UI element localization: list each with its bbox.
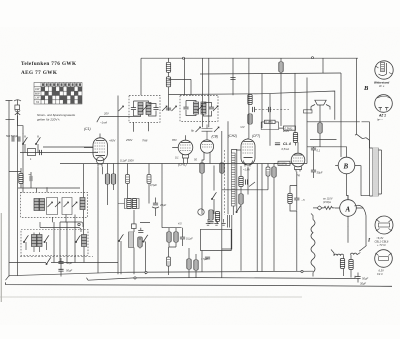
scan left edge	[0, 213, 2, 302]
pad cap	[40, 150, 42, 155]
cap C-50b electrolytic	[58, 269, 63, 271]
input pad box	[28, 149, 36, 156]
lamp socket circle top	[375, 216, 393, 234]
node on HT bus	[183, 57, 185, 59]
wire x141 down to IF1	[140, 58, 142, 95]
capacitor C-168	[166, 108, 171, 110]
rectifier tube circle A	[340, 200, 357, 217]
tube V4 base	[244, 161, 253, 167]
tuning gang cap plates	[202, 125, 213, 141]
resistor R-290	[288, 194, 292, 204]
lamp wires	[344, 253, 361, 278]
switch S-osc	[211, 192, 216, 199]
resistor pair R-107	[105, 174, 109, 184]
wire y147 left	[43, 146, 93, 148]
small circle node loop	[78, 223, 80, 225]
tube V1 base	[97, 157, 104, 167]
IF transformer 2 dashed can	[180, 95, 218, 121]
oscillator coil tall	[232, 153, 236, 206]
wire x356 down to switch	[356, 58, 358, 134]
IF transformer 1 dashed can	[129, 95, 160, 122]
wire C-182	[182, 228, 184, 246]
switch S2b	[44, 235, 49, 242]
dashed AVC y109.5	[255, 109, 289, 111]
coil L2	[80, 198, 85, 210]
wire x233 down	[232, 58, 234, 95]
dial lamp coil 1	[334, 254, 344, 256]
leads R-149	[148, 164, 150, 204]
RF coil pack 2 dashed box	[21, 230, 88, 256]
resistor R-196	[194, 260, 198, 270]
wires cathode	[268, 164, 274, 272]
coil L3	[32, 235, 37, 247]
wire C-50b down	[60, 271, 62, 276]
wire x118 long down	[117, 96, 119, 275]
resistor box 0.3M top	[284, 126, 296, 130]
switch S-mains	[359, 246, 366, 252]
diamond node	[317, 206, 322, 210]
cap C-50a electrolytic	[58, 258, 63, 270]
node on HT bus right	[312, 57, 314, 59]
wire R-295	[295, 133, 297, 146]
IF1 tuning cap right	[153, 108, 158, 110]
wire between stack	[168, 72, 170, 77]
osc coil side wire	[222, 150, 237, 250]
wire x191 down	[190, 79, 192, 95]
resistor R-250b	[248, 114, 252, 124]
output tube circle B	[338, 157, 355, 174]
wire earth bar	[6, 118, 15, 120]
IF1 internal wiring	[134, 101, 157, 116]
transformer side wires	[362, 122, 382, 196]
wire y152 left	[20, 152, 98, 154]
resistor R-stack-2	[166, 77, 170, 87]
coupling cap C-233	[230, 78, 235, 80]
IF2 tuning cap left	[183, 107, 188, 109]
cap C-in1	[12, 136, 14, 141]
resistor R-lamp1	[340, 259, 344, 269]
resistor R-127 light	[126, 175, 130, 184]
antenna terminal A	[6, 101, 13, 119]
wire osc mid	[213, 166, 215, 215]
wire verticals pack1	[37, 164, 85, 263]
wire long y94	[169, 91, 335, 120]
node bus1 right	[301, 270, 303, 272]
heater chain resistors mid-bottom	[167, 257, 171, 266]
trimmer T1	[48, 202, 53, 207]
resistor R-295 vertical	[293, 133, 297, 143]
heater wires	[169, 247, 197, 278]
resistor R-V4a	[239, 177, 243, 187]
cone side contacts	[311, 105, 330, 111]
wire y121.5 right	[307, 121, 360, 123]
volume block resistors	[118, 199, 139, 209]
wire y190	[222, 189, 268, 191]
tone resistor R-140	[138, 237, 142, 247]
wire left vertical x9	[8, 119, 10, 277]
wire x257 down	[256, 164, 258, 272]
resistor R-stack-1	[166, 62, 170, 72]
IF1 coil secondary	[146, 103, 151, 115]
cap C-207	[205, 257, 210, 259]
coil L1b	[40, 199, 45, 211]
switch S2a	[23, 235, 28, 242]
IF1 arrow	[142, 106, 147, 111]
coil L3b	[37, 235, 42, 247]
wire x208.8 down	[208, 58, 210, 127]
cap C-155	[152, 198, 159, 217]
resistor R-202 low	[200, 163, 204, 173]
IF2 tuning cap right	[209, 107, 214, 109]
IF1 coil primary	[138, 103, 143, 115]
tube V3 legs	[204, 153, 210, 161]
bottom bus 3	[87, 276, 356, 281]
resistor R-20 left	[19, 174, 23, 184]
cap C-276	[275, 143, 280, 145]
voltage table filled cells	[41, 83, 82, 103]
wire diamond left	[313, 207, 317, 209]
cap C-31 plus	[29, 175, 32, 182]
IF1 tuning cap left	[131, 108, 136, 110]
tube V2 base	[183, 155, 189, 164]
tube V4 leads	[236, 138, 248, 195]
wire stack bottom	[168, 87, 170, 111]
wire IF1 drops	[134, 122, 149, 132]
cone stem wires	[319, 105, 321, 147]
switch S1a	[22, 137, 27, 144]
component small box right of cone	[304, 110, 313, 113]
wire x307 down	[306, 78, 308, 164]
tube V5 base	[295, 167, 302, 172]
antenna diamond arrester	[15, 110, 20, 116]
wire x248.9 down	[248, 58, 250, 138]
dial lamp coil 2	[351, 253, 357, 255]
wire rect loop	[201, 229, 232, 272]
wire x221.8 down	[221, 131, 223, 278]
resistor R-169	[167, 232, 171, 242]
cap C-in2	[18, 136, 20, 141]
node bus3	[134, 277, 136, 279]
wire long y73	[200, 73, 341, 74]
wire x295 down	[294, 73, 296, 133]
wire left vertical x17	[17, 115, 19, 276]
cap C-313b	[311, 164, 316, 179]
IF2 coil secondary	[201, 102, 206, 114]
tube V4 output pentode envelope	[241, 139, 255, 165]
tone cap small box	[132, 224, 137, 229]
cap C-356	[355, 273, 360, 283]
wire loop around box	[261, 122, 278, 130]
wire x341 down	[340, 73, 342, 157]
loop wire rounded	[40, 222, 83, 232]
tube V2 IF amp envelope	[178, 140, 193, 155]
IF2 arrow	[198, 106, 203, 111]
dashed shield line bottom	[20, 256, 93, 258]
resistor box 0.1M mid	[265, 120, 276, 124]
resistor R-222 low	[220, 163, 224, 173]
faint page edge	[0, 296, 302, 298]
cap C-245	[246, 179, 248, 184]
wire antenna down	[18, 115, 24, 133]
cap C-297	[294, 186, 299, 211]
wire x228 down	[227, 121, 229, 214]
lamp bracket 1	[331, 250, 334, 256]
coil pack 1 wiring	[47, 198, 73, 215]
trimmer arrow left of IF2	[172, 106, 177, 111]
wire y139.5	[310, 139, 337, 141]
wire resistor boxes	[274, 128, 296, 163]
wire x202.5 down	[202, 58, 204, 127]
cap C-182	[180, 237, 185, 239]
voltage table frame	[34, 83, 82, 105]
tube V1 leads	[84, 134, 103, 274]
wire x162 down	[161, 164, 163, 228]
gang trimmer left	[196, 127, 201, 132]
wire x23 down to coil box	[22, 133, 24, 192]
resistor R-250a	[248, 95, 252, 105]
resistor R-149 light	[147, 175, 151, 184]
coil L1	[34, 199, 39, 211]
wire x323 down	[322, 58, 324, 73]
tube V5 AF envelope	[291, 153, 305, 167]
wire y227.7	[162, 227, 182, 229]
wires R-169 R-176	[169, 228, 176, 247]
tube V1 mixer envelope	[93, 138, 107, 161]
output tube leads	[335, 147, 361, 185]
wire y146.5	[307, 146, 347, 148]
wire x184.5 down	[184, 58, 186, 95]
wires R-V4	[240, 166, 242, 271]
resistor R-268 cathode	[266, 167, 270, 176]
indicator cone	[315, 100, 326, 105]
cap C-313a	[311, 147, 316, 164]
IF2 coil primary	[194, 102, 199, 114]
gang trimmer right	[214, 127, 219, 132]
tube V5 top lead	[297, 142, 299, 153]
cord top hook	[311, 214, 313, 220]
rectifier leads	[335, 195, 363, 227]
cone stem resistor	[318, 123, 322, 133]
leads R-127	[127, 164, 129, 199]
switch S-V4	[249, 182, 255, 187]
trimmer T2	[55, 202, 60, 207]
wire stack link y79	[169, 78, 192, 80]
output transformer winding	[373, 148, 379, 196]
IF2 internal wiring	[186, 101, 212, 117]
tube socket view: Widerstand (ballast)	[375, 61, 393, 79]
cap C-253	[253, 107, 255, 112]
bottom bus 4 full	[6, 282, 393, 286]
wire R-217	[217, 212, 219, 224]
cord bottom to bus	[312, 273, 314, 277]
tube V2 leads	[172, 135, 185, 147]
wires left components	[9, 168, 31, 188]
switch S2c	[75, 235, 80, 242]
node bus1	[145, 271, 147, 273]
switch S-out	[355, 134, 366, 139]
switch S-bott	[46, 257, 51, 264]
wire x281	[280, 58, 282, 126]
resistor R-lamp2	[349, 260, 353, 270]
switch S1b	[35, 137, 40, 144]
jack circle TA	[198, 209, 204, 215]
resistor box 0.3M bottom	[278, 161, 290, 165]
resistor R-217	[215, 212, 219, 222]
wire top HT bus y58	[141, 57, 358, 59]
cap C-269	[269, 107, 271, 112]
resistor R-211	[209, 210, 213, 220]
wires V3 legs down	[202, 160, 222, 214]
coil pack 2 wiring	[26, 233, 47, 253]
wire x297 down	[296, 172, 298, 272]
heater bypass cap 1	[206, 219, 210, 225]
wire long AVC bus y163.5	[60, 163, 307, 165]
wire transformer to tube	[347, 166, 370, 200]
lamp socket circle bottom	[375, 250, 393, 268]
cap C-211	[208, 221, 213, 223]
wire grid feed y116.4	[97, 116, 141, 122]
switch leads	[25, 136, 38, 153]
tone cap C-141	[138, 231, 143, 233]
trimmer arrow left of IF1	[119, 106, 124, 111]
tone wires	[121, 210, 150, 274]
switch S-osc2	[236, 205, 241, 212]
antenna coupling box	[15, 105, 20, 110]
wire x270 down	[269, 94, 271, 146]
wire switch to transformer	[366, 138, 370, 148]
resistor R-176	[174, 232, 178, 242]
left corner hook	[6, 276, 10, 281]
zigzag dropper	[322, 206, 335, 209]
trimmer T3	[64, 202, 69, 207]
tone switch Sb	[143, 235, 148, 242]
tube socket view: AZ1	[375, 95, 393, 113]
RF coil pack 1 dashed box	[21, 192, 88, 217]
wire y262.5	[9, 262, 118, 264]
tone switch Sa	[118, 234, 123, 241]
wire x262 down	[261, 73, 263, 272]
pack2 vertical taps	[54, 222, 75, 263]
table row labels	[35, 87, 40, 104]
wires R-290	[290, 186, 297, 212]
oscillator shield dashed	[224, 150, 226, 215]
coil L4	[82, 235, 87, 247]
wire switch	[355, 205, 367, 245]
leads R-pair	[108, 164, 114, 206]
resistor pair R-113	[111, 174, 115, 184]
resistor R-189	[187, 259, 191, 269]
wire y118.5 into IF1	[143, 118, 145, 120]
antenna terminal E curved	[14, 100, 21, 105]
wire x365 to circle	[347, 227, 349, 243]
resistor R-281	[279, 62, 283, 72]
heater bypass cap 2	[214, 219, 218, 225]
wire y188 left	[18, 187, 80, 189]
tone coil L-131	[129, 232, 134, 248]
wire x168.5 drop	[168, 58, 170, 62]
heater bypass cap 3	[221, 219, 225, 225]
tube V3 demod envelope	[200, 140, 213, 153]
trimmer T4	[72, 202, 77, 207]
trimmer right inside IF2	[213, 106, 218, 111]
resistor R-V4b	[239, 194, 243, 204]
bottom bus 1	[9, 271, 313, 276]
resistor R-274	[272, 167, 276, 177]
trimmer arrow right of IF1	[162, 106, 167, 111]
mains cord wavy	[311, 220, 315, 273]
